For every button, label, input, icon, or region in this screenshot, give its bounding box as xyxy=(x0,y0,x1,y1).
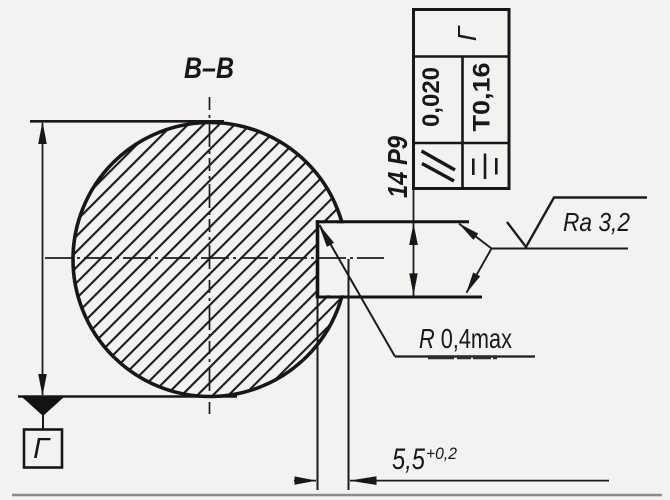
symmetry symbol (rotated, three bars) xyxy=(472,159,475,176)
frame divider under datum cell xyxy=(414,55,510,58)
smudge on leader tail (scan artifact) xyxy=(428,355,497,359)
arrow down xyxy=(38,374,47,396)
R 0,4max leader arrow at keyway corner xyxy=(319,224,335,247)
keyway bottom line xyxy=(316,296,482,299)
datum stem xyxy=(42,414,44,430)
top extension line xyxy=(30,120,224,123)
arrow left xyxy=(350,476,377,485)
vertical centerline xyxy=(209,97,211,414)
R 0,4max leader diagonal xyxy=(320,225,396,357)
roughness check symbol xyxy=(507,198,647,248)
bottom tangent line (datum line) xyxy=(18,395,237,398)
svg-text:+0,2: +0,2 xyxy=(426,444,458,463)
datum box xyxy=(24,430,62,468)
svg-text:R 0,4max: R 0,4max xyxy=(419,323,512,354)
keyway left edge xyxy=(316,220,320,298)
horizontal centerline xyxy=(45,257,384,259)
svg-text:Г: Г xyxy=(452,25,482,41)
svg-text:5,5: 5,5 xyxy=(392,443,425,476)
roughness leader fork: upper arrow xyxy=(459,223,479,240)
extension line keyway edge down xyxy=(317,297,319,490)
scan artifact gray band at bottom xyxy=(12,494,662,497)
svg-text:Ra 3,2: Ra 3,2 xyxy=(563,207,630,237)
frame column divider xyxy=(461,57,464,189)
svg-text:B–B: B–B xyxy=(184,52,234,85)
left vertical dimension line xyxy=(42,123,44,395)
14 P9 dimension line xyxy=(413,188,415,296)
svg-text:14 P9: 14 P9 xyxy=(382,136,413,198)
roughness leader horizontal xyxy=(492,248,629,250)
datum filled triangle xyxy=(22,397,64,416)
parallelism symbol (rotated //) xyxy=(422,151,456,170)
roughness leader fork: lower arrow xyxy=(466,272,480,293)
arrow down to keyway bottom xyxy=(409,273,417,295)
frame divider above symbol cells xyxy=(414,142,510,145)
5,5 dimension line right part xyxy=(350,480,609,482)
arrow up xyxy=(38,122,47,145)
svg-text:Г: Г xyxy=(33,433,51,465)
feature control frame (rotated) outer box xyxy=(414,10,510,189)
svg-text:0,020: 0,020 xyxy=(418,67,445,127)
5,5 dimension line left part xyxy=(294,480,316,482)
R 0,4max leader tail xyxy=(395,355,535,357)
shaft section circle with hatching xyxy=(73,123,347,397)
arrow right xyxy=(295,476,317,484)
extension line shaft edge down xyxy=(348,259,350,490)
keyway cutout (white bite) xyxy=(316,223,354,295)
keyway top line xyxy=(316,220,469,223)
svg-text:T0,16: T0,16 xyxy=(468,63,495,132)
arrow up to keyway top xyxy=(409,223,418,245)
